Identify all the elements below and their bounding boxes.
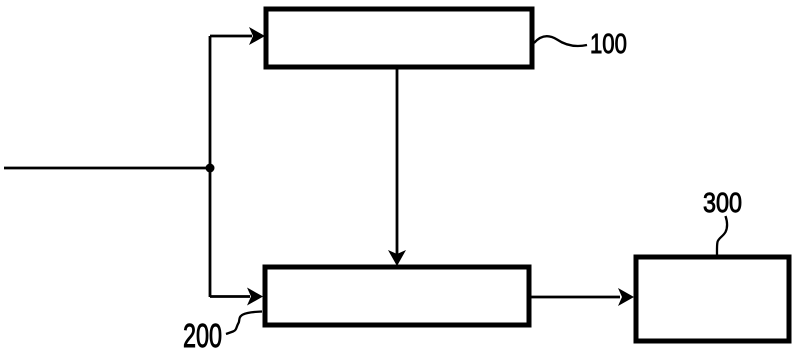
svg-text:300: 300 xyxy=(703,188,742,218)
svg-text:200: 200 xyxy=(183,318,222,355)
svg-text:100: 100 xyxy=(590,29,627,60)
